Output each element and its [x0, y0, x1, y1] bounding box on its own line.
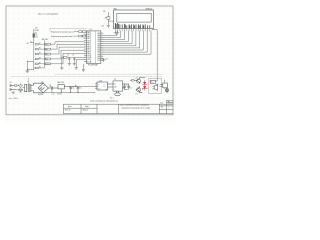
- svg-text:10.01.12: 10.01.12: [65, 110, 71, 112]
- crystal ZQ1: [62, 55, 84, 59]
- title block main name: [120, 104, 151, 110]
- red cathode mark: [142, 88, 143, 90]
- capacitor C4q: [73, 58, 76, 66]
- U1 left pin numbers: [84, 31, 86, 62]
- crystal under relay: [115, 91, 121, 96]
- svg-text:+5В: +5В: [35, 28, 38, 30]
- connector X2: [162, 83, 168, 88]
- svg-text:RB1: RB1: [97, 45, 100, 47]
- resistor pair row 1: [74, 31, 87, 33]
- button SB4: [45, 58, 51, 61]
- ground left below crystal: [60, 58, 63, 70]
- buttons common bus: [43, 40, 45, 67]
- svg-text:R4: R4: [39, 58, 41, 60]
- svg-text:K1: K1: [114, 79, 116, 81]
- resistor pair row 2: [74, 35, 87, 37]
- wire lower bus: [27, 61, 34, 70]
- svg-text:R3: R3: [39, 53, 41, 55]
- capacitor C3 electrolytic: [48, 84, 54, 89]
- svg-text:VT1: VT1: [135, 78, 138, 80]
- capacitor C7: [125, 84, 133, 90]
- svg-text:+5V: +5V: [26, 43, 29, 45]
- button SB2: [45, 48, 51, 51]
- U1 right pins: [101, 33, 103, 60]
- resistor R7: [130, 80, 136, 81]
- svg-text:Дата: Дата: [45, 54, 48, 56]
- relay contact block: [150, 80, 155, 83]
- svg-text:Иванов: Иванов: [83, 110, 88, 112]
- button SB1: [45, 43, 51, 46]
- +5V arrow: [30, 30, 33, 71]
- resistor R2: [35, 48, 45, 50]
- title block right cells: [160, 101, 172, 108]
- svg-text:1307: 1307: [114, 87, 117, 89]
- capacitor C3q: [68, 58, 71, 66]
- alarm enclosure box: [149, 79, 162, 94]
- svg-text:SCL: SCL: [103, 85, 106, 87]
- LCD module HG1: [114, 8, 154, 28]
- svg-text:SB1-SB5: SB1-SB5: [42, 39, 48, 41]
- svg-text:VSS: VSS: [87, 40, 90, 42]
- resistor R5: [35, 62, 45, 64]
- ground symbol below pullup bus: [26, 70, 29, 73]
- relay K1: [108, 79, 125, 91]
- ground under LCD pin 1: [114, 31, 119, 35]
- button SB3: [45, 53, 51, 56]
- svg-text:C5: C5: [80, 87, 82, 89]
- resistor R3: [35, 53, 45, 55]
- U1 right pin names: [97, 33, 100, 62]
- svg-text:R0: R0: [35, 35, 37, 37]
- svg-text:Лис: Лис: [168, 101, 171, 103]
- svg-text:Часы: Часы: [45, 44, 48, 46]
- capacitor C6: [123, 84, 127, 90]
- svg-text:OSC1: OSC1: [87, 55, 91, 57]
- svg-text:K1.1: K1.1: [151, 82, 154, 84]
- resistor R1: [35, 43, 45, 45]
- svg-text:RB7: RB7: [97, 33, 100, 35]
- svg-text:RB2: RB2: [87, 47, 90, 49]
- U1 left pin names: [87, 31, 92, 63]
- svg-text:+5V: +5V: [101, 26, 104, 28]
- svg-text:RB5: RB5: [97, 37, 100, 39]
- svg-text:GND: GND: [98, 89, 101, 91]
- wires: buttons staircase to U1 left pins: [51, 42, 85, 64]
- svg-text:10k: 10k: [35, 32, 38, 34]
- transistor VT2: [135, 87, 142, 96]
- DD2 pin texts: [98, 82, 108, 91]
- microcontroller U1: [86, 29, 100, 67]
- svg-text:Часы с календарём: Часы с календарём: [38, 13, 58, 15]
- svg-text:Дата: Дата: [68, 106, 71, 108]
- regulator DA1: [54, 81, 68, 92]
- wires right output section: [155, 79, 167, 89]
- svg-text:RB3: RB3: [97, 41, 100, 43]
- svg-text:DS: DS: [114, 84, 116, 86]
- svg-text:VD1: VD1: [41, 82, 44, 84]
- buzzer BA1: [153, 83, 159, 90]
- bridge rectifier VD1: [31, 82, 49, 93]
- svg-text:R2: R2: [39, 48, 41, 50]
- svg-text:Переключение режимов (мин) —: Переключение режимов (мин) —: [51, 36, 75, 38]
- svg-text:PIC16F628A: PIC16F628A: [88, 64, 99, 67]
- button SB5: [45, 63, 51, 66]
- +5V pullup column: [26, 28, 45, 73]
- svg-text:RB2: RB2: [97, 43, 100, 45]
- svg-text:Часы на рабочем столе с будиль: Часы на рабочем столе с будильни: [120, 104, 149, 107]
- svg-text:U1: U1: [90, 29, 92, 31]
- svg-text:Лист: Лист: [160, 103, 163, 105]
- svg-text:+5V: +5V: [105, 59, 108, 61]
- svg-text:Подп.: Подп.: [85, 106, 90, 108]
- svg-text:C7: C7: [130, 88, 132, 90]
- lamp HL3: [166, 88, 169, 93]
- RTC chip DD2: [96, 81, 108, 90]
- title block texts: [65, 106, 90, 112]
- U1 left pins: [84, 32, 86, 61]
- wire: LCD pin 16 to right vertical rail: [152, 30, 157, 79]
- svg-text:R6: R6: [39, 67, 41, 69]
- U1 right pin numbers: [101, 32, 103, 61]
- LCD pin name column (vertical tiny labels): [115, 23, 150, 28]
- LCD pin stubs below: [115, 29, 152, 32]
- svg-text:Сброс: Сброс: [45, 64, 49, 66]
- svg-text:VT2: VT2: [135, 93, 138, 95]
- svg-text:RB0: RB0: [87, 42, 90, 44]
- svg-text:300: 300: [35, 37, 38, 39]
- +5V rail to lower blocks: [69, 86, 97, 88]
- LCD pin numbers: [115, 30, 151, 32]
- cap labels under PSU: [38, 93, 62, 96]
- dashed section divider lower: [11, 76, 162, 78]
- svg-text:исправления редакция от 1 янва: исправления редакция от 1 января: [121, 107, 150, 110]
- svg-text:1000мк: 1000мк: [57, 94, 62, 96]
- svg-text:RB4: RB4: [87, 51, 90, 53]
- svg-text:R6: R6: [103, 11, 105, 13]
- contrast pot RV1: [103, 11, 113, 27]
- svg-text:WH1602: WH1602: [146, 8, 153, 10]
- resistor R4: [35, 58, 45, 60]
- resistor R6b: [34, 67, 44, 69]
- mains connector X1: [10, 82, 15, 91]
- fuse FU1: [14, 84, 22, 92]
- svg-text:C4: C4: [72, 87, 74, 89]
- title block frame: [64, 100, 174, 113]
- svg-text:C3: C3: [67, 55, 69, 57]
- capacitor C5: [71, 85, 82, 93]
- svg-text:RB5: RB5: [87, 53, 90, 55]
- svg-text:R5: R5: [39, 62, 41, 64]
- LED HL2 (red): [142, 86, 147, 90]
- ground under IC left bottom: [75, 60, 84, 70]
- transformer tap stub: [28, 78, 30, 81]
- border frame: [6, 6, 173, 115]
- svg-text:RB6: RB6: [97, 35, 100, 37]
- svg-text:RB4: RB4: [97, 39, 100, 41]
- svg-text:OSC2: OSC2: [87, 57, 91, 59]
- callout bracket over first signal row: [50, 28, 86, 31]
- ground near U1 bottom right: [102, 58, 108, 61]
- svg-text:DD2: DD2: [99, 81, 102, 83]
- capacitor C4: [69, 87, 75, 93]
- svg-text:Переключение режимов (час) —: Переключение режимов (час) —: [51, 32, 75, 34]
- svg-text:T1: T1: [27, 82, 29, 84]
- svg-text:RB1: RB1: [87, 45, 90, 47]
- svg-text:HG1: HG1: [114, 8, 118, 10]
- svg-text:R1-R5: R1-R5: [35, 30, 40, 32]
- svg-text:RB3: RB3: [87, 49, 90, 51]
- svg-text:RB0: RB0: [97, 48, 100, 50]
- svg-text:Сеть ~220 В: Сеть ~220 В: [9, 98, 18, 100]
- svg-text:R1: R1: [39, 43, 41, 45]
- svg-text:Рис.1: Рис.1: [110, 98, 114, 100]
- LED HL1 (red): [142, 80, 147, 86]
- bottom ground rail: [43, 89, 95, 94]
- svg-text:C4: C4: [72, 55, 74, 57]
- svg-text:Схема электрическая принципиал: Схема электрическая принципиальная: [90, 100, 118, 102]
- svg-text:X1: X1: [10, 82, 12, 84]
- transformer T1: [16, 82, 32, 92]
- ground under transformer: [12, 92, 15, 94]
- svg-text:Листов: Листов: [167, 103, 172, 105]
- wires: LCD data bus staircase to U1 right pins: [103, 31, 151, 54]
- dashed section divider upper: [55, 73, 162, 75]
- svg-text:С3: С3: [53, 94, 55, 96]
- ground 2 under IC: [82, 64, 85, 71]
- svg-text:VSS: VSS: [97, 60, 100, 62]
- transistor VT1: [135, 78, 144, 84]
